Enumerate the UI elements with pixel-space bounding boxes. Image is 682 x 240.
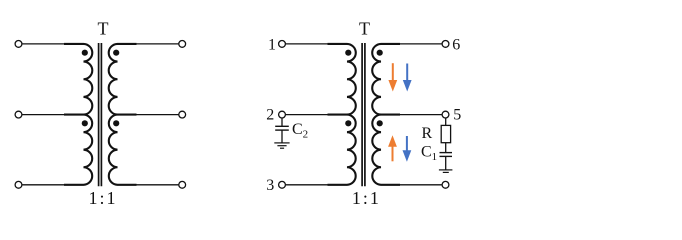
- ground (below C1): [439, 170, 453, 173]
- polarity dot (left transformer, secondary top): [113, 50, 119, 56]
- svg-text:1: 1: [268, 36, 276, 53]
- terminal (left transformer middle-right): [179, 111, 186, 118]
- terminal (left transformer top-left): [15, 41, 22, 48]
- secondary winding (right transformer right coil, 8 loops): [372, 44, 400, 185]
- svg-text:T: T: [98, 19, 109, 39]
- primary winding middle tap lead: [328, 114, 348, 116]
- terminal (left transformer bottom-left): [15, 181, 22, 188]
- transformer T (right transformer): [266, 19, 461, 209]
- svg-text:6: 6: [452, 36, 460, 53]
- svg-text:5: 5: [453, 107, 461, 124]
- wire (top-right): [136, 43, 179, 45]
- terminal 2: [279, 111, 286, 118]
- wire (middle-left): [22, 114, 64, 116]
- terminal (left transformer middle-left): [15, 111, 22, 118]
- wire (C1 to ground): [445, 156, 447, 170]
- wire (bottom-left): [22, 184, 64, 186]
- svg-text:2: 2: [266, 107, 274, 124]
- primary winding (left transformer left coil, 8 loops): [64, 44, 92, 185]
- svg-text:C2: C2: [292, 121, 308, 141]
- polarity dot (left transformer, primary middle): [82, 120, 88, 126]
- wire (node 5 down to R): [445, 118, 447, 126]
- terminal 1: [279, 41, 286, 48]
- terminal (left transformer bottom-right): [179, 181, 186, 188]
- svg-text:1:1: 1:1: [352, 188, 381, 208]
- wire (R to C1): [445, 143, 447, 153]
- wire (node 1 to primary): [286, 43, 328, 45]
- current arrow (blue, down, lower): [403, 136, 412, 162]
- svg-text:1:1: 1:1: [88, 188, 117, 208]
- secondary winding middle tap lead: [118, 114, 137, 116]
- wire (top-left): [22, 43, 64, 45]
- transformer T (left transformer): [15, 19, 186, 209]
- primary winding (right transformer left coil, 8 loops): [328, 44, 356, 185]
- svg-text:R: R: [422, 125, 433, 142]
- terminal (left transformer top-right): [179, 41, 186, 48]
- resistor R: [441, 125, 450, 142]
- wire (secondary bottom): [400, 184, 442, 186]
- core (left transformer, two vertical lines): [99, 43, 102, 186]
- secondary winding middle tap lead: [381, 114, 400, 116]
- wire (secondary to node 6): [400, 43, 442, 45]
- polarity dot (left transformer, secondary middle): [113, 120, 119, 126]
- capacitor C2 plates: [275, 125, 289, 127]
- polarity dot (right transformer, secondary top): [377, 50, 383, 56]
- capacitor C1 plates: [440, 152, 453, 154]
- current arrow (blue, down, upper): [403, 64, 412, 92]
- polarity dot (right transformer, primary top): [345, 50, 351, 56]
- polarity dot (left transformer, primary top): [82, 50, 88, 56]
- ground (below C2): [274, 143, 289, 148]
- current arrow (orange, down, upper): [388, 63, 397, 91]
- wire (node 2 down to C2): [281, 118, 283, 127]
- wire (C2 to ground): [281, 130, 283, 143]
- core (right transformer, two vertical lines): [362, 43, 365, 186]
- wire (node 2 to primary tap): [286, 114, 328, 116]
- wire (middle-right): [136, 114, 179, 116]
- polarity dot (right transformer, primary middle): [345, 120, 351, 126]
- svg-text:C1: C1: [421, 144, 437, 164]
- secondary winding (left transformer right coil, 8 loops): [109, 44, 137, 185]
- wire (bottom-right): [136, 184, 179, 186]
- svg-text:T: T: [359, 19, 370, 39]
- svg-text:3: 3: [266, 177, 274, 194]
- terminal 3: [279, 181, 286, 188]
- polarity dot (right transformer, secondary middle): [377, 120, 383, 126]
- terminal 6: [442, 41, 449, 48]
- primary winding middle tap lead: [64, 114, 84, 116]
- current arrow (orange, up, lower): [388, 135, 397, 161]
- capacitor C2 branch at node 2: [274, 118, 308, 149]
- wire (node 3 to primary): [286, 184, 328, 186]
- R C1 branch at node 5: [421, 118, 452, 173]
- terminal 5: [442, 111, 449, 118]
- wire (secondary tap to node 5): [400, 114, 442, 116]
- terminal 4 (unlabeled bottom-right): [442, 181, 449, 188]
